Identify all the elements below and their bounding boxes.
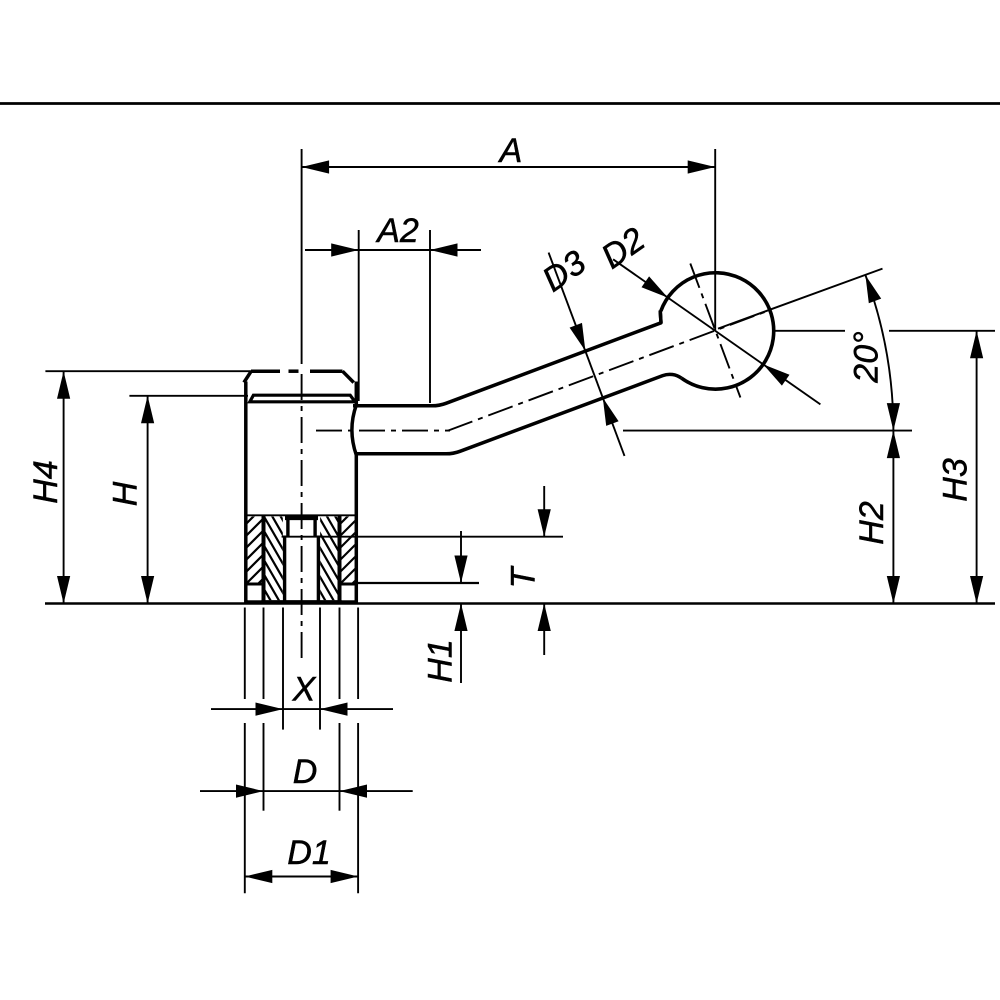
hub left edge [244, 382, 248, 603]
arm bottom edge [356, 374, 681, 453]
dim H2: top extension line [623, 430, 912, 432]
dim A: right extension line (knob axis) [714, 149, 716, 331]
relief slot left (white) [248, 586, 261, 600]
dim X arrows [256, 703, 284, 716]
dim D line [200, 790, 413, 792]
dim H4 arrows [57, 371, 70, 399]
hub shoulder flange band [250, 395, 355, 402]
dim D2 arrows [642, 276, 668, 297]
svg-text:H3: H3 [937, 458, 975, 502]
svg-text:A2: A2 [375, 212, 419, 250]
hub right edge upper [355, 382, 359, 406]
knob perpendicular centerline (dash-dot) [690, 264, 740, 398]
dim H1 upper line+arrow [460, 531, 462, 583]
svg-text:D2: D2 [595, 220, 652, 276]
hatch insert left (60deg \) [177, 497, 441, 621]
svg-text:H2: H2 [853, 501, 891, 545]
hub cap top edge [251, 369, 280, 373]
hatch hub body left (45deg /) [35, 497, 357, 603]
svg-text:D3: D3 [536, 243, 593, 299]
thread major diameter line right [338, 516, 342, 602]
relief shelf left [245, 583, 265, 586]
hatch hub body right (45deg /) [130, 497, 452, 603]
dim H3 arrows [970, 331, 983, 359]
svg-text:D: D [293, 753, 318, 791]
top border line [0, 102, 1000, 105]
svg-text:H1: H1 [422, 639, 460, 682]
hub bottom edge [245, 600, 357, 603]
dim T lower line+arrow [543, 604, 545, 656]
dim D1 arrows [245, 870, 272, 883]
ground baseline [45, 602, 995, 605]
svg-text:A: A [498, 132, 523, 170]
dim H4: top extension line [45, 370, 251, 372]
dim H1: top extension line [358, 582, 480, 584]
dim T upper line+arrow [543, 486, 545, 537]
hatch insert right (60deg \) [232, 497, 496, 621]
dim D1: extension lines [244, 608, 246, 700]
dim H3 line [976, 331, 978, 604]
thread major diameter line left [262, 516, 266, 602]
dim D2 line [613, 259, 820, 404]
20deg inclined reference line [718, 269, 883, 329]
recess wall left [286, 517, 289, 537]
dim H3: top extension line segments [773, 330, 845, 332]
recess wall right [313, 517, 316, 537]
dim A2 arrows [331, 243, 359, 256]
dim H2 line [892, 431, 894, 604]
dim H4 line [63, 371, 65, 603]
dim H arrows [141, 396, 154, 424]
dim A line [302, 166, 716, 168]
svg-text:H: H [107, 481, 145, 506]
dim D: extension lines [263, 608, 265, 700]
dim H line [147, 396, 149, 604]
thread hatch top boundary line [247, 514, 357, 516]
dim A2: right extension line [429, 230, 431, 403]
dim H: top extension line [129, 395, 248, 397]
hub/arm fillet (right edge middle) [352, 405, 356, 455]
dim A: left extension line (hub axis above) [301, 149, 303, 364]
hub cap chamfer right [343, 371, 354, 382]
dim A2: left extension line [358, 230, 360, 401]
svg-text:20°: 20° [848, 331, 886, 383]
svg-text:X: X [292, 671, 317, 709]
dim X: extension lines [282, 608, 284, 730]
dim T: top extension line [282, 536, 563, 538]
ball knob circle [661, 273, 774, 389]
arm centerline (dash-dot) inclined part [448, 312, 766, 431]
dim X line [211, 708, 393, 710]
dim D3 arrows [570, 323, 586, 351]
dim D arrows [236, 785, 264, 798]
dim A arrows [302, 160, 330, 173]
relief shelf right [338, 583, 358, 586]
dim H1 lower line+arrow [460, 604, 462, 684]
arm centerline (dash-dot) horizontal part [316, 430, 450, 432]
dim H2 arrows [887, 431, 900, 459]
tapped hole wall left [283, 536, 286, 602]
hub right edge lower [355, 455, 359, 603]
svg-text:H4: H4 [27, 460, 65, 503]
recess cap thick line [285, 516, 318, 520]
knob neck chamfer [658, 311, 662, 323]
arm top edge [353, 311, 661, 406]
svg-text:D1: D1 [287, 834, 330, 872]
20deg arc arrows [865, 275, 881, 303]
hub centerline dash-dot [301, 374, 303, 663]
svg-text:T: T [505, 565, 543, 588]
dim D1 line [245, 876, 358, 878]
relief slot right (white) [342, 586, 355, 600]
tapped hole wall right [317, 536, 320, 602]
20deg arc [865, 275, 893, 431]
dim D3 line [549, 253, 625, 456]
dim A2 line [305, 249, 481, 251]
hub cap chamfer left [244, 371, 251, 382]
